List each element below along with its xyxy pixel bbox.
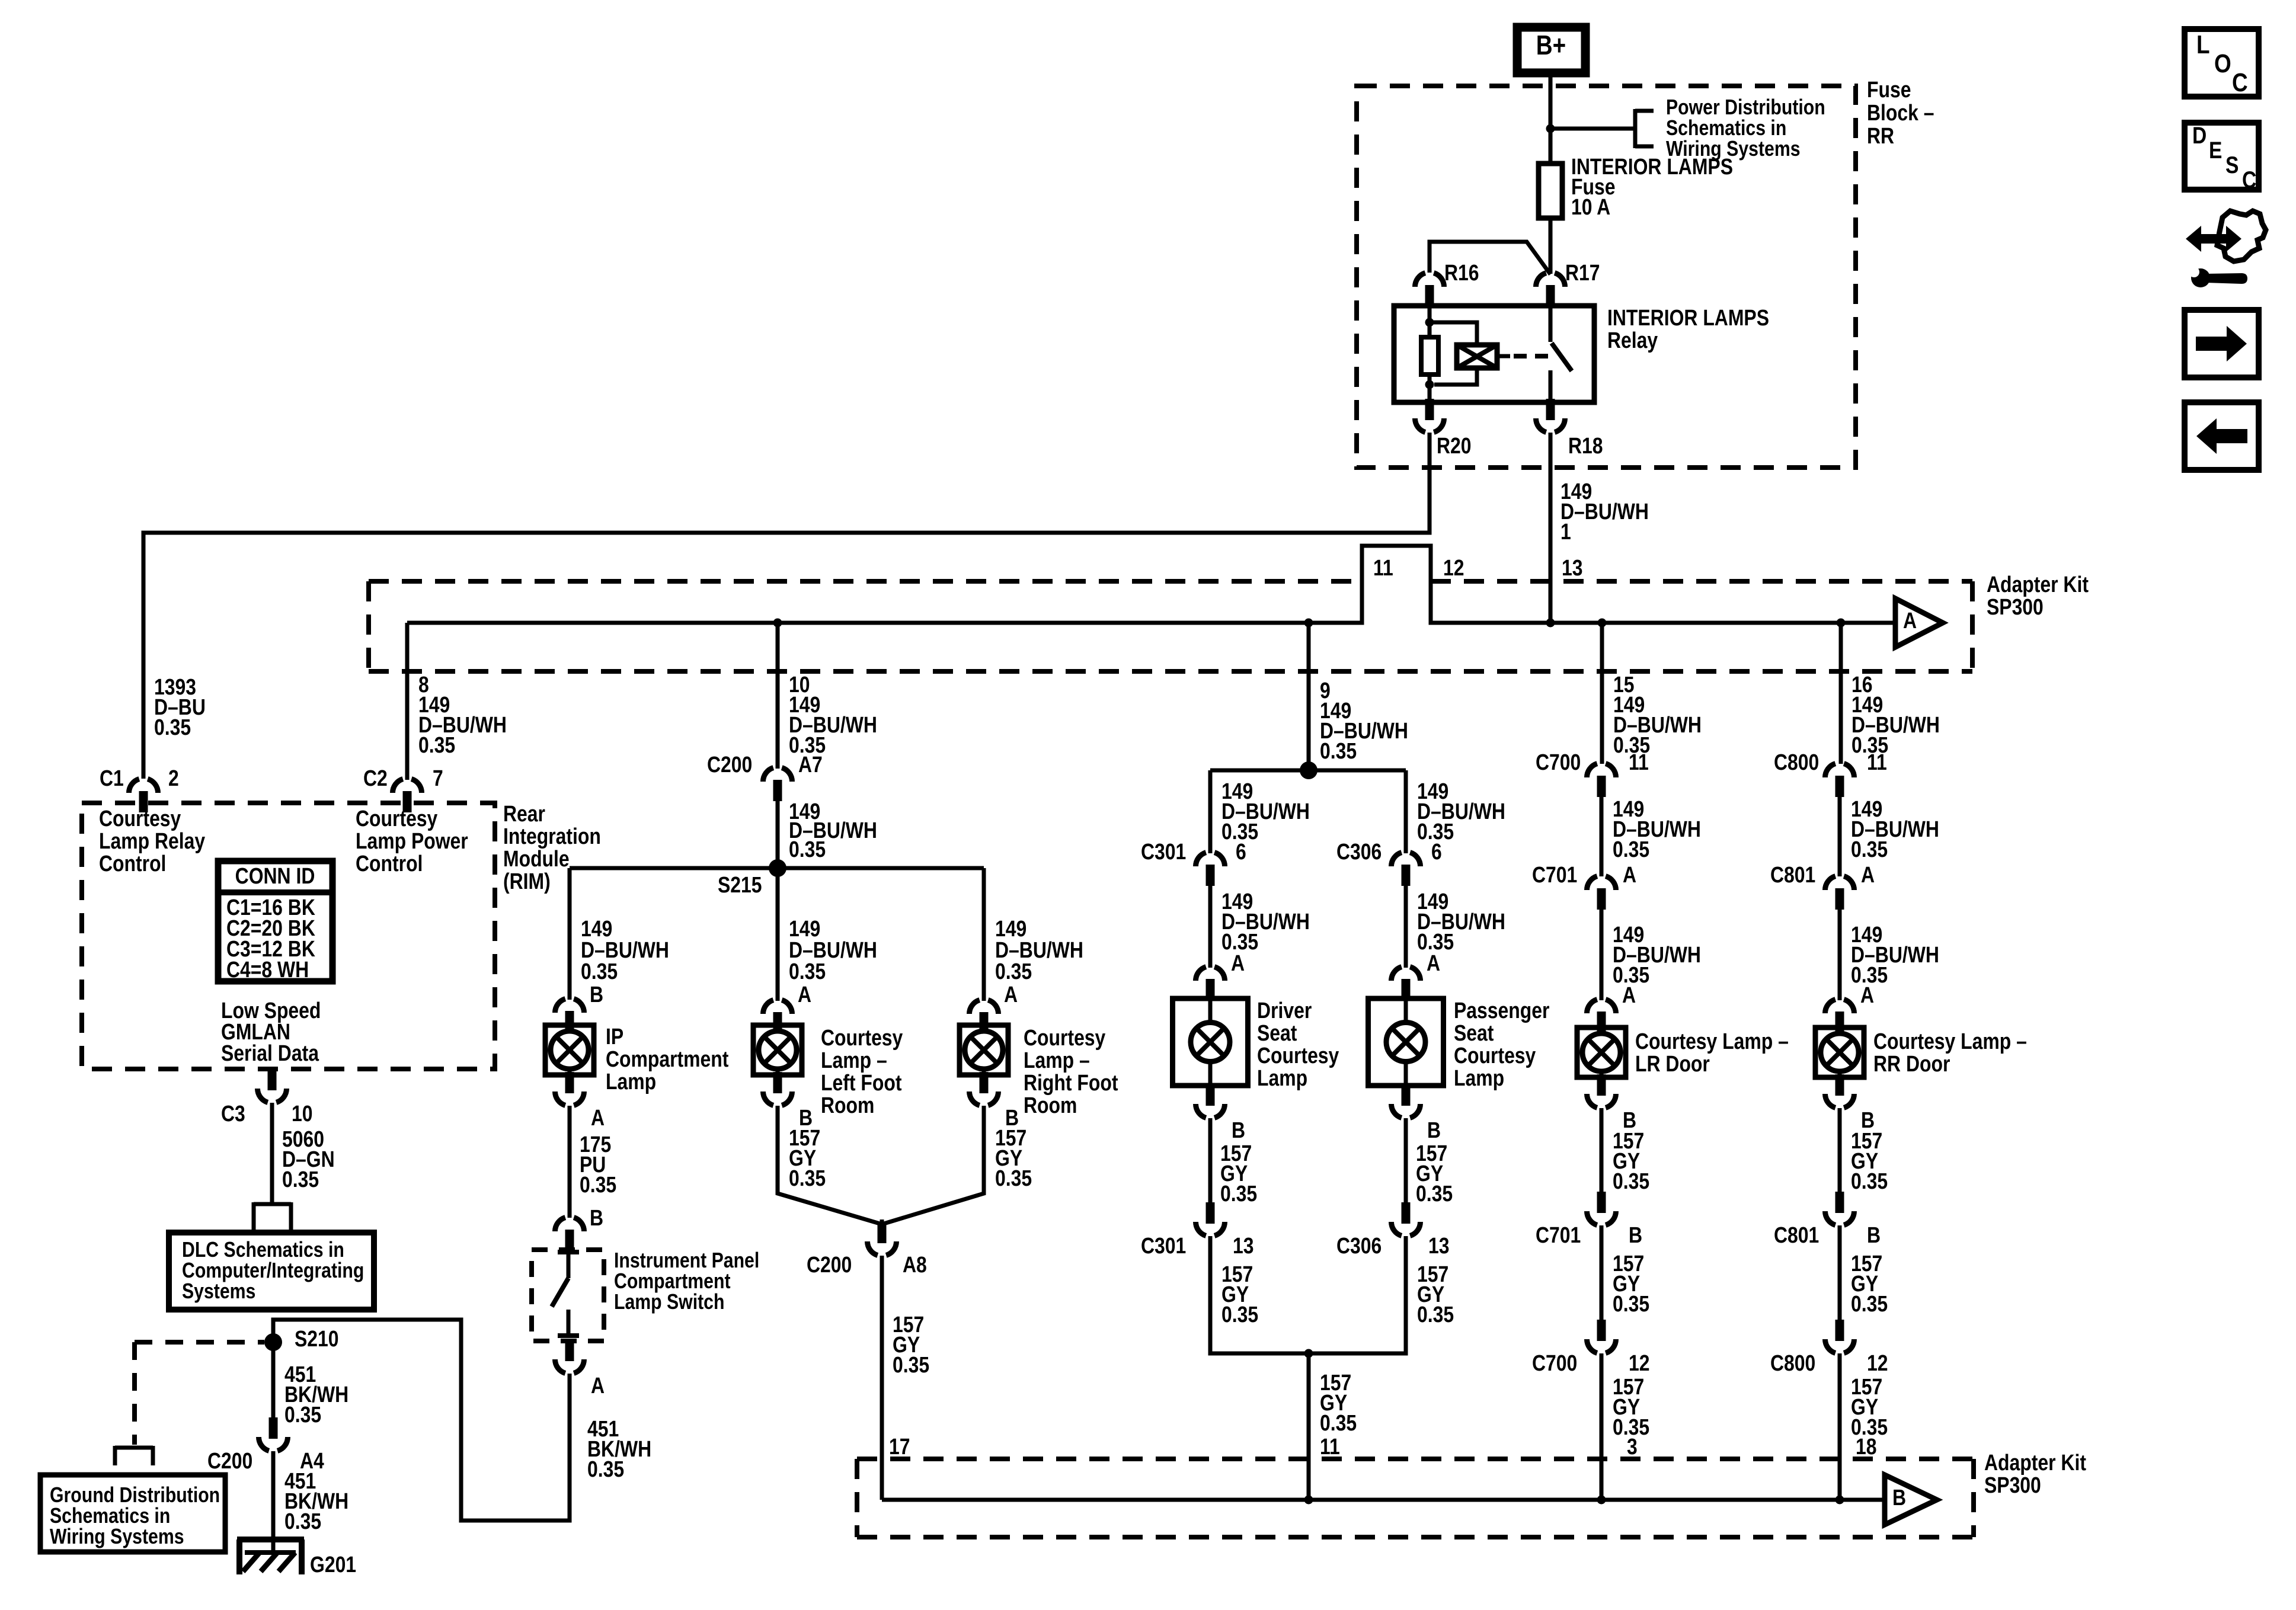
connector pin B passenger seat lamp: [1392, 1084, 1441, 1143]
svg-text:Control: Control: [99, 851, 166, 876]
connector pin B IP lamp: [555, 999, 584, 1032]
svg-text:1: 1: [1560, 519, 1571, 544]
svg-text:C200: C200: [807, 1252, 852, 1277]
svg-text:Lamp Power: Lamp Power: [356, 828, 468, 853]
wire tap to power distribution reference: [1550, 127, 1635, 131]
label circuit 149 D-BU/WH 0.35 A RR lamp: [1851, 922, 1939, 1007]
wire 16 bus to C800: [1839, 623, 1843, 764]
icon LOC button: [2185, 29, 2259, 97]
node relay coil bottom: [1425, 380, 1434, 389]
label Courtesy Lamp - Right Foot Room: [1024, 1025, 1118, 1118]
svg-text:10: 10: [292, 1101, 313, 1126]
fuse block - RR dashed box: [1357, 86, 1856, 468]
svg-text:0.35: 0.35: [581, 959, 618, 984]
svg-text:RR Door: RR Door: [1873, 1051, 1950, 1076]
connector C700 pin 11: [1536, 750, 1649, 797]
switch S IP compartment lamp switch: [552, 1252, 579, 1336]
connector R20: [1415, 399, 1472, 459]
connector R18: [1536, 399, 1603, 459]
adapter kit SP300 bottom band bottom edge: [857, 1535, 1974, 1539]
connector C3 pin 10: [221, 1069, 313, 1126]
wire C801 to RR door lamp: [1838, 910, 1842, 1000]
wire S210 to C200 A4: [271, 1342, 276, 1417]
reference bracket ground distribution: [115, 1446, 153, 1465]
label IP Compartment Lamp: [606, 1024, 729, 1094]
svg-text:B: B: [590, 1205, 603, 1230]
svg-text:0.35: 0.35: [1221, 1302, 1258, 1327]
svg-text:Courtesy: Courtesy: [1454, 1043, 1536, 1068]
node bus wire 16: [1837, 619, 1846, 628]
svg-text:Relay: Relay: [1607, 328, 1658, 353]
label INTERIOR LAMPS Fuse 10 A: [1571, 154, 1733, 219]
svg-text:C701: C701: [1536, 1222, 1581, 1247]
wire R20 to courtesy lamp relay control: [143, 433, 1430, 779]
label Instrument Panel Compartment Lamp Switch: [614, 1249, 759, 1314]
svg-text:11: 11: [1867, 750, 1887, 774]
svg-text:A: A: [798, 982, 811, 1007]
box Ground Distribution Schematics in Wiring Systems: [40, 1475, 225, 1552]
node bottom bus wire 3: [1597, 1496, 1606, 1505]
svg-text:0.35: 0.35: [284, 1509, 321, 1534]
svg-text:A7: A7: [798, 752, 823, 777]
wire RR lamp to C801 B: [1838, 1108, 1842, 1193]
svg-text:C3: C3: [221, 1101, 245, 1126]
wire adapter bus left segment: [407, 546, 1895, 623]
svg-text:Lamp –: Lamp –: [1024, 1048, 1090, 1073]
svg-text:0.35: 0.35: [1851, 1169, 1888, 1193]
node seat return junction: [1304, 1349, 1313, 1358]
svg-text:0.35: 0.35: [1613, 1169, 1649, 1193]
wire branch to R16: [1430, 242, 1550, 274]
svg-text:0.35: 0.35: [154, 715, 191, 740]
label circuit 157 GY 0.35 LR mid: [1613, 1251, 1649, 1316]
wire 10 bus to C200 A7: [776, 623, 780, 769]
icon forward arrow button: [2185, 310, 2259, 377]
label circuit 149 D-BU/WH 1: [1560, 479, 1649, 544]
svg-text:Right Foot: Right Foot: [1024, 1070, 1118, 1095]
wire IP lamp to switch: [568, 1106, 572, 1218]
svg-text:17: 17: [889, 1434, 910, 1459]
svg-text:0.35: 0.35: [789, 959, 826, 984]
reference bracket DLC: [254, 1202, 291, 1231]
relay K INTERIOR LAMPS box: [1394, 306, 1594, 402]
node bus wire 13: [1546, 619, 1555, 628]
connector C200 pin A8: [807, 1219, 927, 1278]
lamp E driver seat courtesy lamp: [1173, 998, 1248, 1086]
adapter kit SP300 bottom band top edge: [857, 1457, 1974, 1461]
label circuit 451 BK/WH 0.35 S210: [284, 1362, 348, 1427]
svg-text:10 A: 10 A: [1571, 194, 1610, 219]
label circuit 157 GY 0.35 driver upper: [1220, 1141, 1257, 1206]
connector pin A RR door lamp: [1825, 1000, 1854, 1033]
label circuit 157 GY 0.35 right foot: [995, 1125, 1032, 1190]
svg-text:C800: C800: [1770, 1350, 1815, 1375]
adapter kit SP300 dashed band bottom edge: [369, 669, 1972, 674]
label circuit 149 D-BU/WH 0.35 A LR lamp: [1613, 922, 1701, 1007]
wire 15 bus to C700: [1600, 623, 1604, 764]
wire C801 B to C800 12: [1838, 1225, 1842, 1321]
svg-text:Systems: Systems: [182, 1280, 255, 1304]
label circuit 157 GY 0.35 LR return: [1613, 1374, 1649, 1459]
ground G201: [237, 1539, 356, 1577]
label INTERIOR LAMPS Relay: [1607, 305, 1769, 353]
label Courtesy Lamp Relay Control: [99, 806, 206, 876]
wire C200 A7 to S215: [776, 801, 780, 868]
svg-text:R20: R20: [1437, 433, 1472, 458]
wire LR lamp to C701 B: [1600, 1108, 1604, 1193]
svg-text:Lamp: Lamp: [606, 1069, 656, 1094]
relay coil: [1457, 345, 1497, 368]
wire branch to C306: [1404, 770, 1408, 853]
svg-text:Courtesy Lamp –: Courtesy Lamp –: [1873, 1029, 2027, 1054]
wire S215 horizontal: [570, 866, 984, 870]
svg-text:C200: C200: [707, 752, 752, 777]
svg-text:6: 6: [1236, 839, 1246, 864]
svg-text:0.35: 0.35: [1320, 738, 1357, 763]
label circuit 149 D-BU/WH 0.35 A passenger: [1417, 889, 1505, 975]
svg-text:C306: C306: [1336, 1233, 1382, 1258]
label circuit 175 PU 0.35: [580, 1132, 616, 1230]
svg-text:0.35: 0.35: [1220, 1181, 1257, 1206]
svg-text:11: 11: [1320, 1434, 1340, 1459]
connector R16: [1415, 260, 1479, 306]
svg-text:C1: C1: [100, 766, 124, 790]
label Passenger Seat Courtesy Lamp: [1454, 998, 1550, 1090]
wire S215 to IP compartment lamp: [568, 868, 572, 1000]
rear integration module dashed box: [82, 803, 495, 1069]
svg-text:12: 12: [1443, 555, 1464, 580]
adapter kit SP300 dashed band left edge: [366, 581, 371, 671]
svg-text:0.35: 0.35: [284, 1402, 321, 1427]
svg-text:Adapter Kit: Adapter Kit: [1987, 572, 2089, 597]
svg-text:S210: S210: [295, 1326, 339, 1351]
node bus wire 10: [773, 619, 782, 628]
label Power Distribution Schematics in Wiring Systems: [1666, 96, 1825, 161]
label circuit 5060 D-GN 0.35: [282, 1126, 335, 1192]
svg-text:11: 11: [1629, 750, 1649, 774]
label circuit 149 D-BU/WH 0.35 A right foot branch: [995, 916, 1083, 1007]
wire C800 to C801: [1838, 797, 1842, 876]
svg-text:Adapter Kit: Adapter Kit: [1984, 1450, 2086, 1475]
svg-text:A: A: [1427, 950, 1440, 975]
label circuit 157 GY 0.35 RR return: [1851, 1374, 1888, 1459]
connector C801 pin A: [1770, 862, 1875, 910]
svg-text:13: 13: [1562, 555, 1583, 580]
wire C3 to DLC reference: [270, 1103, 274, 1204]
label circuit 157 GY 0.35 return: [1320, 1370, 1357, 1459]
svg-text:0.35: 0.35: [1851, 837, 1888, 862]
svg-text:0.35: 0.35: [995, 959, 1032, 984]
wire 18 to bottom bus: [1838, 1353, 1842, 1500]
svg-text:C306: C306: [1336, 839, 1382, 864]
svg-text:B: B: [1232, 1118, 1245, 1142]
svg-text:0.35: 0.35: [789, 1166, 826, 1190]
svg-text:D: D: [2192, 122, 2207, 148]
svg-text:LR Door: LR Door: [1635, 1051, 1710, 1076]
lamp E courtesy lamp left foot room: [753, 1025, 802, 1075]
svg-text:A8: A8: [903, 1252, 927, 1277]
reference bracket Power Distribution: [1635, 109, 1654, 148]
label Fuse Block - RR: [1867, 77, 1934, 148]
label Courtesy Lamp - RR Door: [1873, 1029, 2027, 1076]
svg-text:A: A: [591, 1373, 605, 1398]
label circuit 157 GY 0.35 left foot: [789, 1125, 826, 1190]
connector C301 pin 6: [1141, 839, 1246, 886]
connector C301 pin 13: [1141, 1202, 1254, 1259]
svg-text:A: A: [1622, 982, 1636, 1007]
label circuit 157 GY 0.35 LR upper: [1613, 1128, 1649, 1193]
lamp E courtesy lamp right foot room: [960, 1025, 1008, 1075]
svg-text:13: 13: [1233, 1233, 1254, 1258]
svg-text:Room: Room: [821, 1093, 874, 1118]
wire C301 to driver seat lamp: [1208, 886, 1213, 968]
label circuit 157 GY 0.35 RR mid: [1851, 1251, 1888, 1316]
svg-text:C700: C700: [1532, 1350, 1577, 1375]
relay switch fixed contact: [1549, 306, 1553, 342]
label Adapter Kit SP300 bottom: [1984, 1450, 2086, 1497]
svg-text:C4=8 WH: C4=8 WH: [226, 957, 309, 982]
connector C306 pin 13: [1336, 1202, 1450, 1259]
connector pin A lamp switch: [555, 1340, 605, 1398]
svg-text:Lamp –: Lamp –: [821, 1048, 887, 1073]
wire S215 to right foot lamp: [982, 868, 986, 1001]
label pin 11: [1373, 555, 1393, 580]
svg-text:Courtesy: Courtesy: [356, 806, 438, 831]
svg-text:Rear: Rear: [503, 801, 545, 826]
svg-text:Courtesy: Courtesy: [1024, 1025, 1106, 1050]
svg-text:Lamp Switch: Lamp Switch: [614, 1291, 724, 1314]
svg-text:Lamp: Lamp: [1454, 1065, 1504, 1090]
connector pin A IP lamp: [555, 1072, 605, 1131]
svg-text:0.35: 0.35: [1851, 1291, 1888, 1316]
label circuit 149 D-BU/WH 0.35 RR mid: [1851, 796, 1939, 862]
label Low Speed GMLAN Serial Data: [221, 998, 321, 1065]
svg-text:11: 11: [1373, 555, 1393, 580]
svg-text:C2: C2: [363, 766, 388, 790]
label pin 12: [1443, 555, 1464, 580]
wire C306 13 down: [1309, 1236, 1406, 1353]
svg-text:Seat: Seat: [1454, 1020, 1494, 1045]
svg-text:18: 18: [1856, 1434, 1877, 1459]
wire B+ to fuse: [1549, 73, 1553, 164]
adapter kit connector A triangle: [1895, 598, 1943, 647]
svg-text:CONN ID: CONN ID: [235, 863, 315, 888]
wire seat branch horizontal: [1210, 769, 1406, 773]
box DLC Schematics in Computer/Integrating Systems: [169, 1233, 374, 1310]
wire bottom return bus: [882, 1498, 1885, 1502]
wire passenger lamp to C306 13: [1404, 1118, 1408, 1204]
svg-text:R16: R16: [1444, 260, 1479, 285]
svg-text:Serial Data: Serial Data: [221, 1041, 319, 1065]
svg-text:C801: C801: [1770, 862, 1815, 887]
label pin 9 circuit 149 D-BU/WH 0.35: [1320, 678, 1408, 763]
node bus wire 15: [1598, 619, 1607, 628]
svg-text:A: A: [591, 1105, 605, 1130]
wire C301 13 down: [1210, 1236, 1309, 1353]
connector C306 pin 6: [1336, 839, 1442, 886]
wire coil top branch: [1430, 322, 1477, 345]
svg-text:R17: R17: [1565, 260, 1600, 285]
svg-text:RR: RR: [1867, 123, 1894, 148]
connector pin B RR door lamp: [1825, 1074, 1875, 1133]
icon DESC button: [2185, 122, 2259, 193]
wire 8 bus to C2: [405, 623, 410, 780]
adapter kit SP300 dashed band right edge: [1970, 581, 1975, 671]
icon shift wrench: [2186, 211, 2266, 287]
svg-text:R18: R18: [1568, 433, 1603, 458]
wire left foot lamp to A8 vee: [778, 1106, 882, 1224]
wire R18 to adapter pin 13: [1549, 433, 1553, 623]
svg-text:Lamp Relay: Lamp Relay: [99, 828, 206, 853]
svg-text:B: B: [1892, 1485, 1906, 1510]
connector C700 pin 12: [1532, 1320, 1650, 1376]
svg-text:A: A: [1623, 862, 1636, 887]
node bottom bus wire 11: [1304, 1496, 1313, 1505]
label circuit 157 GY 0.35 passenger lower: [1417, 1262, 1454, 1327]
svg-text:A: A: [1231, 950, 1245, 975]
connector pin A passenger seat lamp: [1392, 967, 1421, 1000]
connector pin B driver seat lamp: [1196, 1084, 1246, 1143]
svg-text:Wiring Systems: Wiring Systems: [50, 1525, 184, 1549]
svg-text:E: E: [2209, 137, 2222, 163]
svg-text:A: A: [1004, 982, 1018, 1007]
svg-text:Driver: Driver: [1257, 998, 1312, 1023]
svg-text:2: 2: [168, 766, 179, 790]
label Rear Integration Module (RIM): [503, 801, 601, 894]
label circuit 451 BK/WH 0.35 switch side: [587, 1416, 651, 1481]
svg-text:(RIM): (RIM): [503, 869, 551, 894]
wire C700 to C701: [1600, 797, 1604, 876]
resistor relay suppression: [1421, 337, 1438, 375]
svg-text:Compartment: Compartment: [606, 1046, 729, 1071]
svg-text:Courtesy Lamp –: Courtesy Lamp –: [1635, 1029, 1789, 1054]
wire C701 to LR door lamp: [1600, 910, 1604, 1000]
svg-text:C301: C301: [1141, 1233, 1186, 1258]
svg-text:3: 3: [1627, 1434, 1638, 1459]
label circuit 451 BK/WH 0.35 ground side: [284, 1468, 348, 1534]
relay switch lower contact: [1549, 370, 1553, 402]
connector pin B right foot lamp: [970, 1072, 1019, 1131]
svg-text:Courtesy: Courtesy: [1257, 1043, 1339, 1068]
label circuit 149 D-BU/WH 0.35 C306 feed: [1417, 779, 1505, 844]
svg-text:0.35: 0.35: [282, 1167, 319, 1192]
splice S215: [718, 859, 786, 898]
svg-text:0.35: 0.35: [789, 837, 826, 862]
svg-text:Fuse: Fuse: [1867, 77, 1911, 102]
label pin 16 circuit 149 D-BU/WH 0.35: [1851, 672, 1940, 757]
svg-text:D–BU/WH: D–BU/WH: [1560, 499, 1649, 524]
linkage dashed coil to switch: [1514, 354, 1548, 359]
connector pin B LR door lamp: [1587, 1074, 1637, 1133]
wire 9 bus to seat branch: [1307, 623, 1311, 770]
svg-text:B: B: [1867, 1222, 1881, 1247]
wire branch to C301: [1208, 770, 1213, 853]
svg-text:IP: IP: [606, 1024, 623, 1049]
label circuit 157 GY 0.35 driver lower: [1221, 1262, 1258, 1327]
svg-text:Courtesy: Courtesy: [821, 1025, 903, 1050]
svg-text:C301: C301: [1141, 839, 1186, 864]
wire S215 to left foot lamp: [776, 868, 780, 1001]
svg-text:0.35: 0.35: [995, 1166, 1032, 1190]
table CONN ID: [218, 861, 332, 982]
label pin 13: [1562, 555, 1583, 580]
svg-text:Left Foot: Left Foot: [821, 1070, 902, 1095]
wire 3 to bottom bus: [1600, 1353, 1604, 1500]
svg-text:Module: Module: [503, 846, 570, 871]
fuse F INTERIOR LAMPS 10 A: [1539, 164, 1562, 218]
icon back arrow button: [2185, 402, 2259, 470]
svg-text:Control: Control: [356, 851, 423, 876]
label Courtesy Lamp Power Control: [356, 806, 468, 876]
connector C701 pin A: [1532, 862, 1636, 910]
connector pin A LR door lamp: [1587, 1000, 1616, 1033]
wire fuse to R17: [1549, 218, 1553, 274]
svg-text:O: O: [2214, 49, 2231, 78]
wire coil armature stub: [1497, 354, 1510, 359]
relay switch blade: [1552, 343, 1572, 371]
wire C701 B to C700 12: [1600, 1225, 1604, 1321]
svg-text:SP300: SP300: [1984, 1473, 2041, 1497]
battery feed B+ terminal: [1517, 27, 1585, 73]
svg-text:0.35: 0.35: [1613, 1291, 1649, 1316]
svg-text:12: 12: [1629, 1350, 1650, 1375]
svg-text:0.35: 0.35: [1613, 837, 1649, 862]
adapter kit SP300 bottom band right edge: [1971, 1459, 1976, 1537]
connector pin A left foot lamp: [763, 1000, 792, 1033]
svg-text:S215: S215: [718, 872, 762, 897]
svg-text:Lamp: Lamp: [1257, 1065, 1307, 1090]
node seat branch junction: [1300, 761, 1318, 779]
svg-text:INTERIOR LAMPS: INTERIOR LAMPS: [1607, 305, 1769, 330]
svg-text:A: A: [1861, 862, 1875, 887]
svg-text:B: B: [1629, 1222, 1642, 1247]
connector C800 pin 11: [1774, 750, 1887, 797]
wire coil bottom branch: [1434, 368, 1477, 385]
svg-text:SP300: SP300: [1987, 594, 2044, 619]
wire C200 A4 to ground: [271, 1451, 276, 1553]
splice S210: [264, 1326, 339, 1351]
label pin 8 circuit 149 D-BU/WH 0.35: [418, 672, 507, 757]
svg-text:0.35: 0.35: [1416, 1181, 1453, 1206]
svg-text:A: A: [1860, 982, 1874, 1007]
lamp E passenger seat courtesy lamp: [1368, 998, 1444, 1086]
adapter kit SP300 bottom band left edge: [855, 1459, 859, 1537]
svg-text:G201: G201: [310, 1552, 356, 1577]
connector pin B left foot lamp: [763, 1072, 813, 1131]
lamp E courtesy lamp RR door: [1815, 1028, 1864, 1077]
label Adapter Kit SP300 top: [1987, 572, 2089, 619]
adapter kit connector B triangle: [1885, 1475, 1937, 1525]
wire C306 to passenger seat lamp: [1404, 886, 1408, 968]
label pin 15 circuit 149 D-BU/WH 0.35: [1613, 672, 1702, 757]
label Courtesy Lamp - LR Door: [1635, 1029, 1789, 1076]
svg-text:C801: C801: [1774, 1222, 1819, 1247]
label Courtesy Lamp - Left Foot Room: [821, 1025, 903, 1118]
connector C200 pin A4: [207, 1417, 324, 1474]
dashed wire S210 to ground distribution reference: [135, 1342, 264, 1445]
label circuit 157 GY 0.35 passenger upper: [1416, 1141, 1453, 1206]
label circuit 157 GY 0.35 A8: [889, 1312, 929, 1459]
connector C800 pin 12: [1770, 1320, 1888, 1376]
label pin 10 circuit 149 D-BU/WH 0.35: [789, 672, 877, 757]
svg-text:L: L: [2196, 30, 2210, 59]
wire 11 to bottom bus: [1307, 1353, 1311, 1500]
wire driver lamp to C301 13: [1208, 1118, 1213, 1204]
svg-text:6: 6: [1431, 839, 1442, 864]
node bus wire 9: [1304, 619, 1313, 628]
svg-text:0.35: 0.35: [1320, 1410, 1357, 1435]
lamp E IP compartment lamp: [545, 1025, 594, 1075]
